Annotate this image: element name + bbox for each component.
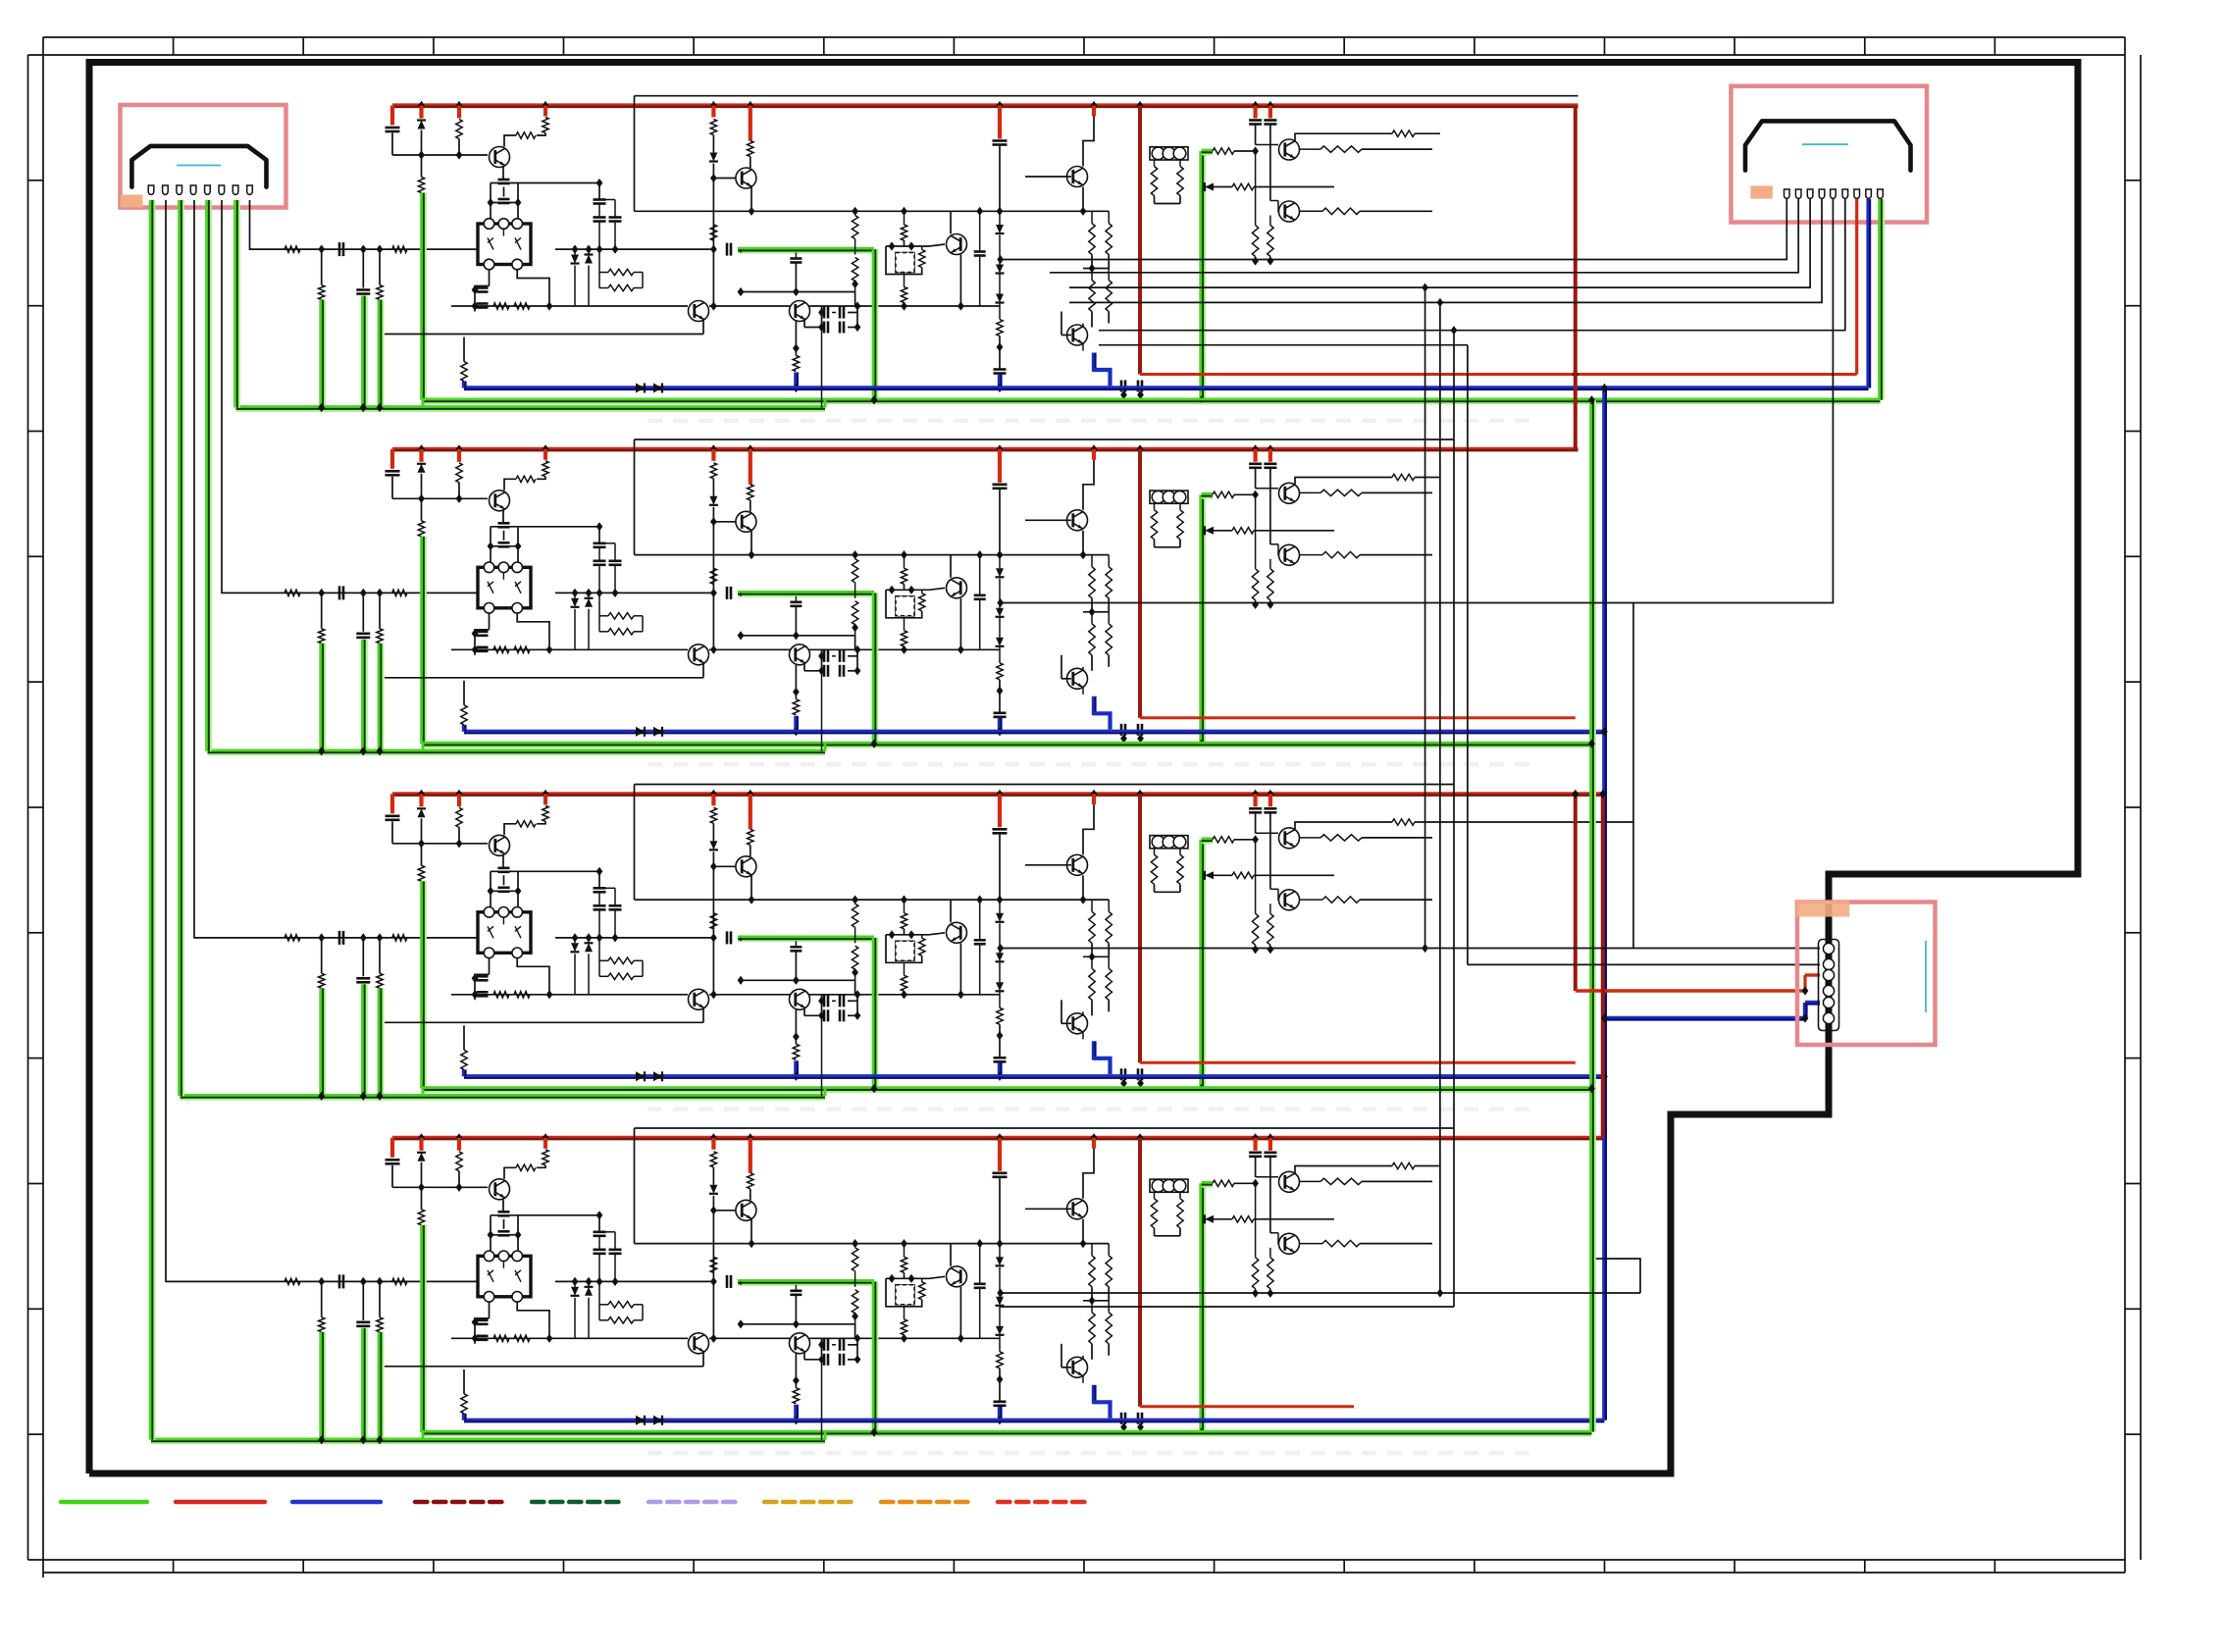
ch4 diode D41 (419, 1138, 423, 1151)
ch4 gnd wire (425, 1225, 427, 1432)
ch4 transistor Q46 (1092, 1138, 1096, 1149)
ch4 resistors R419 R420 (1091, 1244, 1093, 1256)
legend solid red wire (176, 1500, 265, 1504)
ch1 resistor R19 (493, 303, 509, 309)
sense riser to middle connector pin2 (1467, 345, 1469, 965)
ch2 resistor R22 (543, 449, 547, 460)
ch2 diode D26 (1205, 527, 1214, 535)
ch1 red feed trunk horizontal (1140, 373, 1857, 376)
ch1 resistor R129 (1322, 208, 1360, 214)
ch1 caps on return bus (1120, 381, 1123, 392)
ch2 resistor R229 (1322, 551, 1360, 557)
ch2 resistor R225 (1213, 491, 1234, 497)
ch4 resistor R45 (392, 1278, 407, 1284)
ch1 resistors R119 R120 (1091, 211, 1093, 223)
connector J1 (top-left) pink outline (121, 105, 286, 208)
ch1 capacitor C11 (386, 127, 400, 129)
ch4 green sense wire (738, 1284, 874, 1286)
ch3 resistor R317 (901, 975, 906, 991)
ch1 transistor Q18 (1256, 144, 1278, 146)
ch2 wire column (712, 593, 714, 649)
ch3 wire column (712, 938, 714, 995)
ch2 dual gate caps (491, 526, 518, 528)
sense wire J2 pin1 to ch1 (1001, 199, 1787, 260)
ch1 transistor Q15 (929, 244, 945, 246)
ch4 transistor Q49 (1269, 1171, 1271, 1233)
ch1 resistor R118 (997, 320, 1003, 336)
ch2 green feedback riser (1204, 494, 1206, 744)
ch1 resistor R116 (919, 250, 925, 268)
ch1 shunt resistor R16 (321, 249, 323, 284)
ch1 wire opto emitter (489, 270, 491, 286)
ch1 wire Q12 emitter (750, 187, 752, 212)
middle connector pin2 line (1468, 963, 1820, 965)
ch3 resistor R316 (919, 938, 925, 955)
ch1 resistor ladder (1252, 226, 1258, 257)
ch2 resistor R210 (514, 646, 530, 652)
ch4 resistor R415 (901, 1257, 906, 1272)
drawing frame inner top line (28, 54, 2126, 56)
ch4 transistor Q43 left (689, 1333, 709, 1354)
frame tick marks left band (28, 180, 44, 181)
ch3 blue stub (998, 1062, 1001, 1076)
ch3 capacitor C32 (338, 931, 341, 945)
legend solid green wire (61, 1500, 147, 1504)
ch4 shunt capacitor C43 (362, 1281, 364, 1319)
ch2 mid signal line (451, 648, 688, 650)
ch4 resistor R48 (421, 1187, 423, 1210)
ch3 wire Q34 emitter (795, 1009, 797, 1044)
ch3 caps C34 C35 (477, 975, 489, 978)
ch2 resistor R24 (285, 590, 300, 595)
red chain ch3 to ch4 (1601, 794, 1605, 1138)
ch2 blue elbow (1092, 697, 1095, 715)
blue trunk to J2 pin8 (1866, 199, 1869, 388)
green chain vertical (1594, 400, 1596, 1432)
ch4 capacitor C410 (994, 1401, 1007, 1404)
ch4 capacitor C49 (998, 1138, 1002, 1171)
connector J3 orange key pad (1796, 901, 1850, 916)
ch1 snubber diode D17 (574, 249, 576, 254)
ch1 resistor R117 (901, 287, 906, 303)
ch3 resistor R311 (711, 794, 715, 805)
ch4 resistor R418 (997, 1352, 1003, 1368)
ch3 resistor R315 (901, 913, 906, 929)
ch1 transistor Q19 (1269, 139, 1271, 201)
connector J2 orange key pad (1750, 185, 1772, 198)
ch4 diode D42 (709, 1185, 717, 1194)
red elbow at middle connector (1803, 975, 1806, 991)
ch2 resistor R216 (919, 594, 925, 611)
ch2 blue stub (998, 718, 1001, 732)
ch4 capacitor C42 (338, 1274, 341, 1288)
ch4 wire column (712, 1281, 714, 1338)
ch3 capacitor C38 (979, 900, 981, 940)
ch1 wire Q11 emitter (502, 166, 504, 180)
ch4 resistor R416 (919, 1282, 925, 1300)
ch4 wire Q41 emitter (502, 1198, 504, 1212)
ch2 resistor R226 (1232, 528, 1254, 534)
frame tick marks bottom band (173, 1560, 175, 1573)
ch2 snubber caps C213 C214 (518, 526, 599, 528)
ch1 transistor Q17 (1067, 325, 1088, 345)
ch3 green sense wire (738, 940, 874, 942)
ch2 transistor Q22 (713, 521, 740, 523)
ch4 diode D46 (1205, 1215, 1214, 1223)
ch2 resistor R214 (793, 699, 799, 715)
ch3 transistor Q37 (1067, 1013, 1088, 1034)
ch3 resistor R312 (749, 794, 752, 829)
ch3 cap C37 (795, 941, 797, 947)
ch4 +B power bus (392, 1136, 1603, 1138)
thick schematic border (89, 63, 2078, 1474)
ch4 resistor R49 (493, 1335, 509, 1341)
ch3 resistor R331 (608, 973, 634, 979)
ch4 resistor R413 (710, 1257, 716, 1272)
frame tick marks top band (173, 37, 175, 55)
legend dashed bright red wire (998, 1500, 1085, 1504)
red feed to middle connector (1574, 794, 1578, 991)
ch4 transistor Q48 (1256, 1176, 1278, 1178)
ch1 resistor R114 (793, 356, 799, 372)
ch4 resistor R412 (749, 1138, 752, 1173)
ch1 resistor R13 (516, 132, 536, 138)
ch4 caps cluster (821, 1338, 823, 1360)
ch3 diodes on blue bus (636, 1071, 645, 1081)
ch4 blue return stub (794, 1405, 797, 1420)
ch3 gnd wire (425, 881, 427, 1088)
ch1 diodes on blue bus (636, 384, 645, 393)
ch3 optocoupler U31 (478, 912, 531, 954)
ch3 resistor R325 (1213, 837, 1234, 843)
ch3 +B feed trunk (1138, 794, 1142, 1062)
ch4 optocoupler U41 (478, 1256, 531, 1297)
ch3 capacitor C39 (998, 794, 1002, 827)
green trunk to J2 pin9 (1883, 199, 1885, 400)
ch2 capacitor C29 (998, 449, 1002, 483)
ch1 resistors R121 R122 (1089, 281, 1095, 312)
ch4 resistor R414 (793, 1388, 799, 1404)
connector J3 (middle-right) pink outline (1797, 903, 1936, 1046)
ch4 thermal sensor dashed box (886, 1278, 903, 1307)
sense wire J2 pin5 / ch2 feedback line (1001, 199, 1834, 603)
sense wire J2 pin6 (1454, 199, 1845, 331)
ch2 caps on return bus (1120, 724, 1123, 736)
ch2 wire Q21 emitter (502, 509, 504, 523)
drawing frame inner right line (2124, 37, 2126, 1573)
ch3 bus junctions (418, 790, 425, 799)
ch4 transistor Q45 (929, 1276, 945, 1278)
ch3 transistor Q31 (490, 835, 510, 855)
ch3 resistor R34 (285, 935, 300, 941)
ch3 wire Q35 collector (950, 900, 952, 922)
ch3 resistor R328 (1320, 835, 1362, 841)
ch2 wire opto collector (517, 613, 549, 650)
ch2 green ground spur (208, 753, 826, 755)
ch2 resistors R223 R224 (1151, 510, 1157, 540)
ch2 wire to signal gnd (324, 644, 326, 751)
ch3 caps cluster (821, 995, 823, 1016)
ch3 wire opto collector (517, 957, 549, 995)
ch4 transistor Q42 (713, 1210, 740, 1212)
ch2 diode stack D23-D25 (999, 555, 1001, 569)
ch1 node bias rail (392, 154, 488, 156)
ch3 capacitor C310 (994, 1057, 1007, 1059)
ch3 resistor R330 (608, 957, 634, 963)
connector J3 pin strip (1819, 940, 1839, 1031)
ch1 transistor Q11 (490, 147, 510, 168)
ch2 wire Q22 emitter (750, 531, 752, 555)
ch2 wire opto emitter (489, 613, 491, 630)
ch3 wire Q35 emitter (959, 943, 961, 995)
ch2 resistor R29 (493, 646, 509, 652)
ch1 green ground spur (236, 410, 826, 412)
ch3 transistor Q36 (1092, 794, 1096, 804)
ch1 shunt resistor R17 (379, 249, 381, 284)
ch4 resistor R44 (285, 1278, 300, 1284)
ch3 snubber diode D37 (574, 938, 576, 943)
ch4 transistor Q44 right (790, 1333, 810, 1354)
ch1 wire Q15 emitter (959, 255, 961, 307)
ch1 sub-frame rect (635, 95, 1578, 97)
ch1 resistors R123 R124 (1151, 167, 1157, 196)
ch1 cap C17 (795, 253, 797, 259)
ch4 sub-frame rect (635, 1127, 1455, 1129)
ch4 resistor R428 (1320, 1178, 1362, 1184)
ch3 resistor R32 (543, 794, 547, 804)
ch2 shunt capacitor C23 (362, 593, 364, 631)
connector J2 polarity line (1802, 143, 1848, 145)
ch3 resistor R318 (997, 1007, 1003, 1024)
ch4 caps on return bus (1120, 1413, 1123, 1424)
ch2 sub-frame rect (635, 439, 1455, 440)
ch2 caps C211 C212 (1253, 449, 1257, 462)
ch2 mid rail 2 (635, 554, 1001, 556)
ch3 mid signal line (451, 994, 688, 996)
ch3 green ground spur (181, 1099, 826, 1101)
ch1 diode stack D13-D15 (999, 211, 1001, 225)
drawing frame outer left line (27, 55, 29, 1560)
drawing frame inner bottom line (28, 1559, 2127, 1561)
blue feed to middle connector (1604, 1016, 1805, 1019)
ch1 +B power bus (392, 103, 1578, 105)
ch1 resistor R126 (1232, 183, 1254, 189)
drawing frame outer top line (43, 36, 2125, 38)
ch3 diode D32 (709, 841, 717, 850)
ch2 resistor R213 (710, 568, 716, 584)
ch2 blue return stub (794, 716, 797, 732)
ch1 shunt capacitor C13 (362, 249, 364, 287)
ch4 resistor R429 (1322, 1240, 1360, 1246)
ch3 thermal sensor dashed box (886, 935, 903, 963)
ch4 wire Q42 emitter (750, 1219, 752, 1244)
ch4 wire opto collector (517, 1302, 549, 1339)
ch3 snubber diode D38 (588, 938, 590, 943)
ch3 shunt resistor R37 (379, 938, 381, 973)
ch4 blue elbow left (462, 1414, 465, 1420)
ch4 node bias rail (392, 1186, 488, 1188)
ch4 resistors R423 R424 (1151, 1199, 1157, 1228)
ch2 capacitor C21 (386, 470, 400, 473)
ch3 diode stack D33-D35 (999, 900, 1001, 913)
ch3 red feed trunk horizontal (1140, 1061, 1576, 1064)
connector J1 polarity line (177, 165, 221, 167)
drawing frame outer right line (2140, 55, 2142, 1560)
ch4 blue elbow (1092, 1385, 1095, 1404)
ch4 snubber diode D47 (574, 1281, 576, 1286)
connector J1 orange key pad (121, 195, 143, 208)
ch1 snubber diode D18 (588, 249, 590, 254)
ch4 green ground spur (151, 1442, 825, 1444)
ch3 resistor R31 (457, 794, 461, 806)
ch1 blue return bus (464, 386, 1869, 388)
legend solid blue wire (292, 1500, 381, 1504)
ch1 resistor R112 (749, 106, 752, 141)
ch2 ghost label (647, 762, 1530, 767)
ch1 capacitor C12 (338, 242, 341, 256)
blue chain vertical (1602, 388, 1605, 1420)
ch1 resistor R128 (1320, 146, 1362, 152)
ch1 caps C14 C15 (477, 286, 489, 289)
ch4 bus junctions (418, 1133, 425, 1142)
legend dashed dark green wire (532, 1500, 619, 1504)
ch4 line filter T41 (1150, 1179, 1188, 1192)
connector J1 pins 1-8 (148, 185, 154, 194)
ch1 diode D12 (709, 153, 717, 162)
ch4 resistor R427 (1295, 1166, 1392, 1173)
ch4 input wire from J1 pin (166, 200, 478, 1281)
ch2 resistor R217 (901, 631, 906, 646)
ch2 transistor Q25 (929, 588, 945, 590)
ch1 bus junctions (418, 101, 425, 110)
ch3 node bias rail (392, 843, 488, 845)
ch1 blue stub (998, 375, 1001, 388)
ch2 resistor R211 (711, 449, 715, 461)
ch2 resistor R212 (749, 449, 752, 485)
ch1 +B feed trunk (1138, 106, 1142, 375)
ch2 blue elbow left (462, 725, 465, 732)
ch2 transistor Q28 (1256, 488, 1278, 490)
ch1 wire opto collector (517, 270, 549, 307)
ch4 wire to signal gnd (324, 1332, 326, 1440)
ch4 green feedback riser (1204, 1183, 1206, 1432)
ch3 resistor ladder (1252, 913, 1258, 945)
ch2 resistor R227 (1295, 478, 1392, 485)
ch4 snubber diode D48 (588, 1281, 590, 1286)
ch1 green feedback riser (1204, 151, 1206, 400)
legend dashed dark red wire (415, 1500, 505, 1504)
ch2 resistor R23 (516, 476, 536, 482)
ch3 diode D36 (1205, 871, 1214, 879)
ch1 capacitor C19 (998, 106, 1002, 139)
ch1 transistor Q12 (713, 178, 740, 180)
ch4 red feed trunk horizontal (1140, 1405, 1354, 1408)
ch1 resistor R127 (1295, 133, 1392, 140)
ch3 transistor Q32 (713, 865, 740, 867)
ch4 feedback lines (1001, 1292, 1640, 1294)
ch3 blue return stub (794, 1060, 797, 1076)
ch3 wire to signal gnd (324, 988, 326, 1096)
ch1 capacitor C110 (994, 368, 1007, 371)
ch2 resistors R221 R222 (1089, 624, 1095, 655)
ch3 sub-frame rect (635, 784, 1455, 786)
ch3 transistor Q39 (1269, 827, 1271, 889)
ch1 snubber caps C113 C114 (518, 182, 599, 184)
ch4 blue stub (998, 1407, 1001, 1420)
ch1 gnd wire (425, 193, 427, 400)
ch1 bus left elbow (390, 106, 394, 126)
ch1 snubber rail (555, 248, 713, 250)
ch1 thermal sensor dashed box (886, 246, 903, 275)
ch3 transistor Q35 (929, 933, 945, 935)
ch2 diode D21 (419, 449, 423, 462)
ch2 caps C24 C25 (477, 630, 489, 633)
ch2 resistor R21 (457, 449, 461, 462)
ch1 blue elbow left (462, 382, 465, 388)
ch4 snubber rail (555, 1280, 713, 1282)
connector J3 polarity line (1925, 941, 1927, 1012)
ch3 capacitor C31 (386, 814, 400, 817)
ch2 transistor Q24 right (790, 645, 810, 665)
ch4 shunt resistor R47 (379, 1281, 381, 1316)
ch4 mid rail 2 (635, 1243, 1001, 1245)
ch4 green ground bus (423, 1435, 1592, 1437)
ch1 resistor R115 (901, 225, 906, 240)
legend dashed orange wire (881, 1500, 968, 1504)
ch3 caps C311 C312 (1253, 794, 1257, 806)
ch4 resistor R417 (901, 1319, 906, 1335)
ch3 input wire from J1 pin (194, 200, 478, 938)
ch3 dual gate caps (491, 870, 518, 872)
ch3 mid rail 2 (635, 899, 1001, 901)
ch2 resistor R230 (608, 613, 634, 619)
ch3 resistor R327 (1295, 822, 1392, 829)
ch2 snubber rail (555, 592, 713, 594)
ch1 resistor R125 (1213, 148, 1234, 154)
ch3 snubber rail (555, 937, 713, 939)
ch3 resistor R313 (710, 913, 716, 929)
ch1 transistor Q13 left (689, 301, 709, 322)
ch4 resistor R411 (711, 1138, 715, 1150)
blue elbow at middle connector (1803, 1003, 1806, 1018)
ch2 wire Q25 emitter (959, 598, 961, 650)
ch3 shunt resistor R36 (321, 938, 323, 973)
ch4 diode stack D43-D45 (999, 1244, 1001, 1258)
ch3 bus left elbow (390, 794, 394, 813)
ch3 line filter T31 (1150, 836, 1188, 849)
ch2 red feed trunk horizontal (1140, 716, 1576, 719)
ch2 blue return bus (464, 730, 1604, 733)
ch1 resistor R113 (710, 225, 716, 240)
ch1 resistor R131 (608, 284, 634, 290)
ch3 diode D31 (419, 794, 423, 806)
ch1 capacitor C18 (979, 211, 981, 251)
ch1 input wire from J1 pin (250, 200, 479, 249)
ch2 transistor Q26 (1092, 449, 1096, 460)
ch2 resistor R25 (392, 590, 407, 595)
ch2 node bias rail (392, 497, 488, 499)
ch2 capacitor C210 (994, 711, 1007, 714)
ch3 green feedback riser (1204, 840, 1206, 1089)
ch2 diodes on blue bus (636, 727, 645, 737)
ch3 feedback line to middle connector pin1 (1001, 948, 1820, 950)
ch1 ghost label (647, 419, 1530, 424)
ch4 transistor Q41 (490, 1179, 510, 1200)
sense wire J2 pin4 (1440, 199, 1822, 302)
ch3 resistor R38 (421, 844, 423, 866)
ch1 resistor R111 (711, 106, 715, 118)
ch3 resistor R326 (1232, 872, 1254, 878)
